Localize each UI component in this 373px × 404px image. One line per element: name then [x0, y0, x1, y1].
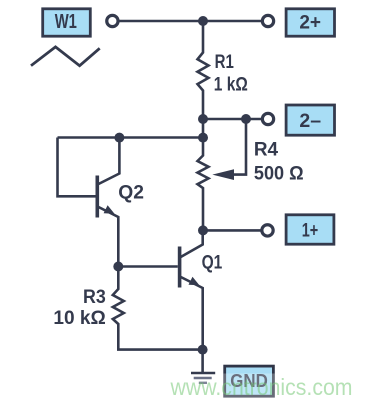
svg-text:2+: 2+ [299, 12, 321, 33]
svg-text:R1: R1 [215, 52, 235, 73]
svg-text:R3: R3 [83, 287, 106, 308]
svg-text:10 kΩ: 10 kΩ [53, 308, 105, 329]
svg-text:R4: R4 [254, 140, 279, 161]
svg-text:1 kΩ: 1 kΩ [214, 75, 248, 96]
svg-text:www.cntronics.com: www.cntronics.com [170, 374, 353, 400]
svg-text:W1: W1 [55, 11, 77, 33]
svg-text:Q2: Q2 [118, 183, 144, 204]
svg-text:Q1: Q1 [202, 253, 223, 274]
svg-text:500 Ω: 500 Ω [254, 164, 304, 185]
svg-text:1+: 1+ [302, 221, 319, 242]
svg-text:2–: 2– [299, 111, 321, 132]
